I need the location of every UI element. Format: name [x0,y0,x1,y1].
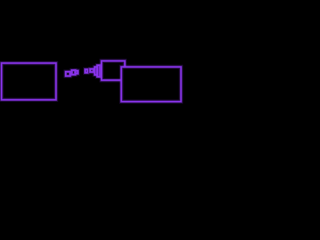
box L (large left rectangle) [2,63,57,100]
box A [66,72,70,76]
box R (large right rectangle, drawn on top) [121,67,181,102]
box C [76,71,78,74]
box G [97,65,100,76]
box M (medium rectangle, partially hidden behind box R) [102,61,125,80]
box F [95,67,98,75]
box B [72,70,75,74]
box E [90,69,93,72]
box D [85,69,87,72]
